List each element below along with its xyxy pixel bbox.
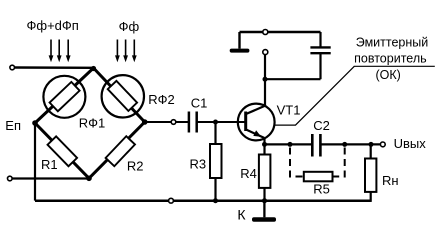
resistor R3 lead bottom [214, 178, 216, 201]
node: bridge bottom vertex [86, 176, 92, 182]
svg-text:RФ1: RФ1 [79, 116, 106, 131]
resistor R4 body [259, 155, 271, 188]
svg-text:R1: R1 [41, 157, 58, 172]
terminal T2 (Eп) [8, 176, 13, 181]
capacitor (supply bypass) bottom plate [310, 52, 330, 54]
wire: emitter output (left of C2) [265, 143, 313, 145]
photoresistor RФ2 body [108, 81, 137, 111]
dashed link left (R5) [290, 148, 304, 177]
transistor VT1 emitter arrowhead [253, 130, 261, 136]
resistor R3 lead top [214, 122, 216, 145]
node: bridge top vertex [91, 66, 96, 71]
node: emitter junction [262, 142, 267, 147]
svg-text:R3: R3 [190, 157, 207, 172]
node: dashed branch right [342, 142, 347, 147]
terminal T1 (top-left) [10, 65, 15, 70]
resistor R5 body [304, 172, 333, 182]
resistor R3 body [210, 144, 222, 178]
svg-text:Uвых: Uвых [394, 136, 427, 151]
wire: Eп terminal to bridge bottom vertex [12, 177, 89, 179]
terminal T7 (collector feed) [263, 50, 268, 55]
capacitor C2 plate right [319, 134, 322, 157]
terminal T4 (on ground rail) [169, 198, 174, 203]
node: Rн branch [369, 142, 374, 147]
resistor R2 body [106, 136, 135, 166]
svg-text:К: К [237, 207, 246, 223]
node: R3 to rail [213, 198, 218, 203]
photoresistor RФ2 circle [102, 75, 144, 117]
terminal T3 (on output wire) [171, 120, 176, 125]
svg-text:R2: R2 [127, 159, 144, 174]
wire: bottom ground rail [35, 199, 371, 202]
leader line to VT1 [274, 66, 354, 125]
wire: bridge arm bottom-right (R2 arm) [89, 122, 145, 178]
transistor VT1 base bar [244, 112, 247, 132]
wire: bridge arm bottom-left (R1 arm) [35, 123, 89, 178]
ground stub [263, 201, 265, 218]
wire: emitter down to node [263, 138, 265, 146]
wire: top-left supply wire [15, 66, 94, 69]
leader underline [354, 65, 435, 67]
transistor VT1 circle [238, 104, 275, 141]
wire: emitter output (right of C2) [320, 143, 380, 145]
terminal T5 (Uвых) [380, 142, 385, 147]
svg-text:повторитель: повторитель [354, 52, 427, 66]
resistor R1 body [48, 136, 78, 166]
capacitor (supply bypass) top plate [310, 46, 330, 48]
node: R4 / ground junction [262, 198, 267, 203]
light arrows Фф [115, 40, 137, 63]
svg-text:Rн: Rн [382, 173, 399, 188]
wire: bypass cap lower lead [319, 54, 321, 80]
photoresistor RФ1 body [50, 82, 80, 111]
resistor Rн lead bottom [370, 192, 372, 202]
node: dashed branch left [288, 142, 293, 147]
svg-text:R5: R5 [313, 181, 330, 196]
wire: collector up to terminal T7 [264, 55, 266, 106]
svg-text:Фф+dФп: Фф+dФп [27, 18, 79, 33]
resistor R4 lead bottom [263, 188, 265, 201]
node: base / R3 junction [213, 120, 218, 125]
capacitor C1 plate right [195, 112, 198, 133]
resistor Rн body [365, 159, 376, 192]
svg-text:C1: C1 [191, 96, 208, 111]
svg-text:C2: C2 [313, 118, 330, 133]
terminal T6 (on top supply wire) [263, 30, 268, 35]
transistor VT1 emitter stroke [246, 130, 264, 138]
light arrows Фф+dФп [49, 40, 71, 63]
svg-text:Eп: Eп [5, 118, 21, 133]
capacitor C1 plate left [188, 112, 191, 133]
wire: bridge arm top-right (to RФ2) [94, 68, 145, 122]
wire: bypass cap upper lead [319, 32, 321, 47]
svg-text:VT1: VT1 [277, 103, 301, 118]
svg-text:RФ2: RФ2 [148, 92, 175, 107]
dashed link right (R5) [333, 148, 345, 177]
node: bridge left vertex [32, 120, 38, 126]
supply bar (+Ek) [230, 49, 250, 53]
svg-text:Фф: Фф [119, 19, 140, 34]
transistor VT1 collector stroke [246, 106, 265, 114]
wire: left vertical (left vertex to ground rail) [34, 123, 36, 201]
resistor R4 lead top [263, 144, 265, 155]
wire: bridge arm top-left (to RФ1) [35, 68, 94, 123]
wire: supply bar drop [238, 32, 240, 49]
svg-text:Эмиттерный: Эмиттерный [356, 36, 429, 50]
node: bridge right vertex [142, 119, 148, 125]
wire: top supply wire [240, 31, 321, 33]
resistor Rн lead top [370, 144, 372, 159]
wire: bridge output to C1 [145, 121, 188, 123]
svg-text:(ОК): (ОК) [376, 68, 401, 82]
wire: junction to bypass cap branch [265, 78, 321, 80]
wire: C1 to base [197, 121, 246, 123]
photoresistor RФ1 circle [43, 76, 85, 118]
svg-text:R4: R4 [240, 166, 257, 181]
node: collector / bypass junction [263, 77, 268, 82]
capacitor C2 plate left [311, 134, 314, 157]
ground bar [252, 217, 276, 222]
